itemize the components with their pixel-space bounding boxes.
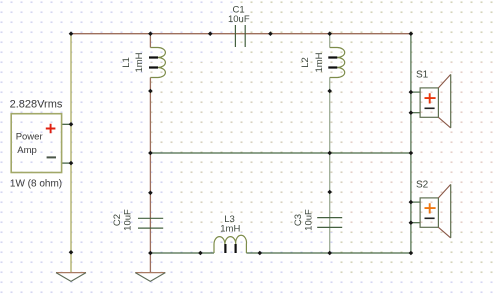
wire right vertical net [410,34,412,253]
speaker S2 plus sign [425,203,436,213]
speaker S1 plus sign [425,93,436,103]
speaker S2 body [420,198,438,227]
speaker S2 minus sign [425,217,435,219]
speaker S1 cone diagonals [438,74,450,128]
svg-text:10uF: 10uF [228,14,250,25]
node top-left corner [69,31,74,36]
grid dots pink right [345,62,500,232]
speaker S2 cone diagonals [438,184,450,238]
grid dots pink middle band [180,152,345,232]
svg-text:10uF: 10uF [122,209,133,231]
svg-text:1mH: 1mH [134,52,145,72]
grid dots olive top right [235,0,500,62]
speaker S1 minus sign [425,107,435,109]
wire S1 plus stub [411,91,420,93]
node S1 minus [409,110,414,115]
speaker S1 body [420,88,438,117]
wire L2/C3 column upper [329,34,331,48]
svg-text:S1: S1 [416,70,429,81]
speaker S2 cone edge [450,184,452,238]
svg-text:C3: C3 [293,214,304,226]
wire power amp minus stub [62,162,72,164]
svg-text:Amp: Amp [17,145,37,156]
grid dots olive bottom right [340,232,500,276]
node C1 left [208,31,213,36]
node bottom-right corner [409,251,414,256]
node L3 left [198,251,203,256]
node S2 plus [409,200,414,205]
svg-text:S2: S2 [416,180,429,191]
node S2 minus [409,220,414,225]
inductor L1 coil [150,48,165,78]
node C1 right [268,31,273,36]
node C2 bottom [148,251,153,256]
svg-text:L2: L2 [300,57,311,68]
svg-text:10uF: 10uF [304,209,315,231]
wire L2/C3 column lower [329,78,331,254]
inductor L1 dash ticks [149,58,158,68]
node amp plus [69,122,74,127]
inductor L2 coil [330,48,345,78]
wire S1 minus stub [411,112,420,114]
node L1 top [148,31,153,36]
svg-text:1mH: 1mH [314,52,325,72]
node L1 bottom [148,89,153,94]
ground symbol left [56,273,86,282]
node C3 bottom [327,251,332,256]
inductor L2 dash ticks [328,58,337,68]
node top-right corner [409,31,414,36]
wire bottom horizontal net right part [246,252,411,254]
node S1 plus [409,90,414,95]
capacitor C1 plates [235,25,245,47]
capacitor C2 plates [138,218,163,228]
node C2 top [148,191,153,196]
ground symbol under C2 [135,273,165,282]
power amp box U1 [11,114,61,173]
svg-text:1mH: 1mH [220,223,240,234]
wire top horizontal net [71,33,411,35]
wire S2 plus stub [411,201,420,203]
node L3 right [258,251,263,256]
svg-text:L1: L1 [121,57,132,68]
power amp minus sign [47,156,56,158]
node L2 bottom [327,89,332,94]
wire S2 minus stub [411,222,420,224]
wire L1/C2 column lower [149,78,151,273]
svg-text:C2: C2 [112,214,123,226]
power amp plus sign [46,124,56,134]
svg-text:Power: Power [16,132,43,143]
node L1 middle wire [148,151,153,156]
wire middle horizontal net [150,152,411,154]
node L2 top [327,31,332,36]
node left ground [69,250,74,255]
speaker S1 cone edge [450,74,452,128]
grid dots tan middle [150,62,345,152]
wire L1/C2 column upper [149,34,151,48]
svg-text:2.828Vrms: 2.828Vrms [10,98,63,110]
node amp minus [69,161,74,166]
node middle right [409,151,414,156]
wire left vertical net [70,34,72,273]
wire power amp plus stub [62,123,72,125]
capacitor C3 plates [317,218,342,228]
wire bottom horizontal net left part [150,252,214,254]
inductor L3 dash ticks [225,244,235,253]
svg-text:1W (8 ohm): 1W (8 ohm) [10,179,62,190]
node L2 middle wire [327,151,332,156]
inductor L3 coil [214,235,247,253]
node C3 top [327,190,332,195]
